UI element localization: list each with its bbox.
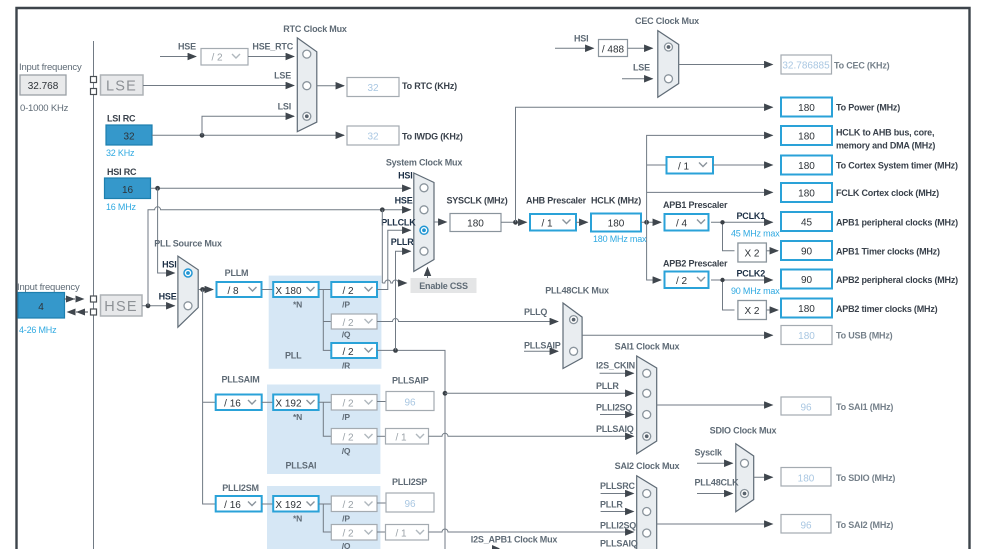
pin HSE bottom bbox=[91, 309, 97, 315]
svg-text:PLLSAIP: PLLSAIP bbox=[524, 341, 561, 351]
svg-text:/ 2: / 2 bbox=[342, 529, 354, 540]
chip boundary rail bbox=[93, 41, 95, 549]
output box APB2 peripheral bbox=[781, 270, 832, 289]
svg-text:90: 90 bbox=[801, 275, 813, 286]
wire HSE stub to /2 divider bbox=[160, 56, 196, 58]
wire APB1 to PCLK1 bbox=[711, 221, 773, 223]
wire APB1 to X2 bbox=[723, 222, 735, 251]
svg-text:PLLQ: PLLQ bbox=[524, 307, 547, 317]
svg-text:HSE_RTC: HSE_RTC bbox=[252, 42, 293, 52]
wire LSI to RTC mux and IWDG bbox=[152, 134, 344, 136]
svg-text:PLLCLK: PLLCLK bbox=[381, 218, 416, 228]
svg-text:45 MHz max: 45 MHz max bbox=[731, 229, 780, 239]
wire PLLSAIQ to SAI1 mux (hop over PLLR line) bbox=[429, 433, 634, 436]
wire /P to PLLSAIP box bbox=[377, 401, 386, 403]
svg-text:/ 2: / 2 bbox=[342, 500, 354, 511]
svg-text:HSI: HSI bbox=[574, 34, 588, 44]
wire PLLI2SQ to SAI2 mux (hop over PLLR line) bbox=[429, 529, 634, 532]
wire X2 to APB1 timer box bbox=[766, 250, 778, 252]
svg-text:/ 2: / 2 bbox=[342, 399, 354, 410]
svg-text:FCLK Cortex clock (MHz): FCLK Cortex clock (MHz) bbox=[836, 188, 939, 198]
svg-text:PLLSAIM: PLLSAIM bbox=[221, 375, 259, 385]
svg-text:PLLSAIP: PLLSAIP bbox=[392, 376, 429, 386]
svg-text:32: 32 bbox=[367, 83, 379, 94]
svg-text:To SAI1 (MHz): To SAI1 (MHz) bbox=[836, 402, 893, 412]
svg-text:PLL48CLK: PLL48CLK bbox=[695, 478, 740, 488]
wire /P to PLLI2SP box bbox=[377, 502, 386, 504]
svg-text:PLLM: PLLM bbox=[225, 268, 249, 278]
svg-text:180: 180 bbox=[798, 304, 815, 315]
svg-text:PLLR: PLLR bbox=[391, 237, 414, 247]
wire PLLM to PLLN bbox=[262, 289, 274, 291]
combobox AHB /1 bbox=[530, 214, 576, 231]
svg-text:/ 2: / 2 bbox=[342, 433, 354, 444]
svg-text:96: 96 bbox=[800, 403, 812, 414]
svg-text:APB2 peripheral clocks (MHz): APB2 peripheral clocks (MHz) bbox=[836, 275, 958, 285]
svg-text:HSI RC: HSI RC bbox=[107, 167, 137, 177]
mux SAI1 Clock Mux bbox=[637, 356, 657, 454]
combobox PLLI2S /1 (inactive) bbox=[386, 525, 429, 541]
wire APB2 to X2 bbox=[723, 280, 735, 310]
output box HCLK to AHB bbox=[781, 126, 832, 145]
svg-text:APB2 timer clocks (MHz): APB2 timer clocks (MHz) bbox=[836, 304, 938, 314]
svg-text:PLLSAI: PLLSAI bbox=[286, 461, 317, 471]
svg-text:PLLR: PLLR bbox=[600, 499, 623, 509]
svg-text:RTC Clock Mux: RTC Clock Mux bbox=[283, 24, 347, 34]
svg-text:32.768: 32.768 bbox=[28, 81, 59, 92]
svg-text:To SDIO (MHz): To SDIO (MHz) bbox=[836, 473, 895, 483]
box SYSCLK 180 bbox=[450, 214, 501, 232]
svg-text:/Q: /Q bbox=[342, 541, 351, 549]
svg-text:180 MHz max: 180 MHz max bbox=[593, 234, 647, 244]
wire /Q to /1 bbox=[377, 435, 386, 437]
svg-text:/ 8: / 8 bbox=[227, 286, 239, 297]
output box PLLSAIP 96 bbox=[386, 392, 434, 411]
svg-text:X 192: X 192 bbox=[275, 500, 302, 511]
wire HSI stub to /488 bbox=[555, 47, 594, 49]
wire CEC mux output bbox=[679, 64, 773, 66]
mux RTC Clock Mux bbox=[297, 38, 317, 132]
svg-text:HSE: HSE bbox=[159, 292, 177, 302]
wire AHB to HCLK bbox=[576, 221, 588, 223]
wire HSI RC to System mux HSI input bbox=[151, 187, 411, 189]
output box APB2 timer bbox=[781, 299, 832, 318]
wire /2 to RTC mux input 1 bbox=[248, 56, 294, 58]
svg-text:X 192: X 192 bbox=[275, 399, 302, 410]
svg-text:HSE: HSE bbox=[178, 42, 196, 52]
wire SYSCLK to AHB prescaler bbox=[501, 221, 527, 223]
combobox PLL /P bbox=[331, 282, 377, 297]
wire PLLI2SM to PLLI2SN bbox=[262, 503, 274, 505]
svg-text:To RTC (KHz): To RTC (KHz) bbox=[402, 81, 457, 91]
oscillator HSI RC box 16 bbox=[105, 178, 151, 199]
svg-text:CEC Clock Mux: CEC Clock Mux bbox=[635, 16, 699, 26]
wire LSE stub to CEC mux bbox=[622, 78, 653, 80]
panel PLLSAI bbox=[267, 385, 380, 475]
svg-text:memory and DMA (MHz): memory and DMA (MHz) bbox=[836, 141, 935, 151]
wire PLLR distribution down bbox=[444, 393, 446, 549]
svg-text:PLL: PLL bbox=[285, 351, 302, 361]
svg-text:/ 1: / 1 bbox=[541, 219, 553, 230]
wire HCLK to APB1 prescaler bbox=[641, 221, 661, 223]
svg-text:/ 1: / 1 bbox=[395, 529, 407, 540]
svg-text:HSE: HSE bbox=[104, 299, 137, 315]
svg-text:SAI1 Clock Mux: SAI1 Clock Mux bbox=[615, 342, 680, 352]
wire PLLI2SQ stub (SAI1) bbox=[600, 414, 634, 416]
wire X2 to APB2 timer box bbox=[766, 309, 778, 311]
wire SAI2 mux output bbox=[657, 523, 773, 525]
button Enable CSS bbox=[411, 278, 477, 293]
oscillator LSE bbox=[101, 75, 144, 95]
svg-text:PLLSAIQ: PLLSAIQ bbox=[600, 538, 638, 548]
output box APB1 timer bbox=[781, 241, 832, 260]
svg-text:To IWDG (KHz): To IWDG (KHz) bbox=[402, 132, 463, 142]
svg-text:/R: /R bbox=[342, 361, 350, 371]
output box To RTC bbox=[347, 78, 399, 97]
pin LSE bottom bbox=[91, 89, 97, 95]
svg-text:180: 180 bbox=[798, 474, 815, 485]
svg-text:Enable CSS: Enable CSS bbox=[419, 281, 468, 291]
output box APB1 peripheral bbox=[781, 212, 832, 231]
svg-text:LSI RC: LSI RC bbox=[107, 114, 136, 124]
wire Enable CSS from HSE (hops over risers) bbox=[382, 210, 406, 283]
svg-text:180: 180 bbox=[798, 132, 815, 143]
svg-text:SAI2 Clock Mux: SAI2 Clock Mux bbox=[615, 461, 680, 471]
svg-text:To Power (MHz): To Power (MHz) bbox=[836, 103, 900, 113]
svg-text:PLLI2SP: PLLI2SP bbox=[392, 477, 427, 487]
svg-text:To SAI2 (MHz): To SAI2 (MHz) bbox=[836, 520, 893, 530]
output box To Cortex System timer bbox=[781, 156, 832, 175]
svg-text:PLLSAIQ: PLLSAIQ bbox=[596, 424, 634, 434]
svg-text:/ 2: / 2 bbox=[342, 318, 354, 329]
wire PLLR to SAI1 mux bbox=[445, 392, 634, 394]
svg-text:LSI: LSI bbox=[278, 102, 291, 112]
svg-text:96: 96 bbox=[800, 521, 812, 532]
wire PLL48CLK stub bbox=[697, 493, 733, 495]
svg-text:System Clock Mux: System Clock Mux bbox=[386, 158, 463, 168]
svg-text:AHB Prescaler: AHB Prescaler bbox=[526, 196, 587, 206]
wire HCLK distribution riser bbox=[647, 135, 773, 222]
wire PLL48CLK mux output to USB bbox=[582, 334, 772, 336]
svg-text:SDIO Clock Mux: SDIO Clock Mux bbox=[710, 426, 777, 436]
oscillator LSI RC box 32 bbox=[106, 125, 152, 145]
svg-text:HSI: HSI bbox=[398, 171, 412, 181]
svg-text:X 180: X 180 bbox=[275, 286, 302, 297]
LSE input frequency box 32.768 bbox=[20, 75, 66, 95]
wire PLLSAIN to dividers bbox=[319, 402, 332, 436]
combobox PLLI2SM /16 bbox=[216, 496, 262, 512]
wire PLLCLK riser /P to System mux bbox=[377, 230, 411, 289]
svg-text:PCLK2: PCLK2 bbox=[737, 269, 766, 279]
svg-text:90 MHz max: 90 MHz max bbox=[731, 286, 780, 296]
svg-text:PLL Source Mux: PLL Source Mux bbox=[154, 239, 222, 249]
combobox PLL /R bbox=[331, 343, 377, 358]
wire SYSCLK riser to To Power bbox=[516, 107, 773, 222]
combobox PLLI2S /P (inactive) bbox=[331, 496, 377, 512]
svg-text:APB2 Prescaler: APB2 Prescaler bbox=[663, 259, 728, 269]
combobox PLLSAIM /16 bbox=[216, 395, 262, 411]
combobox PLLM /8 bbox=[217, 282, 262, 297]
combobox PLLI2SN X192 bbox=[273, 496, 318, 512]
svg-text:/P: /P bbox=[342, 300, 350, 310]
svg-text:PLLR: PLLR bbox=[596, 381, 619, 391]
output box To SAI1 bbox=[781, 397, 831, 415]
svg-text:PLLI2SQ: PLLI2SQ bbox=[596, 402, 632, 412]
svg-text:4: 4 bbox=[38, 302, 44, 313]
mux SDIO Clock Mux bbox=[736, 444, 754, 512]
combobox PLLSAIN X192 bbox=[273, 395, 318, 411]
box HCLK 180 bbox=[591, 214, 641, 232]
svg-text:/ 4: / 4 bbox=[676, 219, 688, 230]
panel PLLI2S bbox=[267, 486, 380, 549]
svg-text:/ 2: / 2 bbox=[211, 53, 223, 64]
combobox PLL /Q (inactive) bbox=[331, 314, 377, 329]
mux I2S_APB1 arrow stub bbox=[492, 545, 500, 549]
svg-text:Sysclk: Sysclk bbox=[695, 448, 724, 458]
svg-text:To USB (MHz): To USB (MHz) bbox=[836, 331, 893, 341]
svg-text:180: 180 bbox=[798, 331, 815, 342]
wire system mux output bbox=[434, 221, 447, 223]
combobox Cortex /1 bbox=[667, 157, 714, 174]
combobox PLLN X180 bbox=[273, 282, 318, 297]
combobox APB1 /4 bbox=[665, 214, 709, 231]
wire PLLSAIP stub bbox=[524, 350, 558, 352]
combobox RTC HSE /2 (inactive) bbox=[201, 49, 248, 66]
svg-text:/ 16: / 16 bbox=[224, 399, 241, 410]
svg-text:SYSCLK (MHz): SYSCLK (MHz) bbox=[446, 196, 507, 206]
oscillator HSE bbox=[101, 295, 143, 316]
svg-text:96: 96 bbox=[404, 398, 416, 409]
svg-text:/P: /P bbox=[342, 514, 350, 524]
svg-text:HSE: HSE bbox=[395, 196, 413, 206]
combobox APB2 /2 bbox=[665, 272, 709, 289]
wire RTC mux output bbox=[317, 85, 344, 87]
svg-text:4-26 MHz: 4-26 MHz bbox=[19, 325, 57, 335]
svg-text:0-1000 KHz: 0-1000 KHz bbox=[20, 103, 69, 114]
wire HSE riser to System mux HSE input (hop over HSI riser) bbox=[148, 207, 411, 306]
svg-text:180: 180 bbox=[798, 161, 815, 172]
wire PLLR riser /R to System mux bbox=[377, 350, 445, 393]
svg-text:To CEC (KHz): To CEC (KHz) bbox=[834, 61, 890, 71]
box X2 (APB1) bbox=[738, 243, 767, 262]
svg-text:/ 488: / 488 bbox=[602, 45, 625, 56]
svg-text:HCLK to AHB bus, core,: HCLK to AHB bus, core, bbox=[836, 128, 934, 138]
output box To CEC bbox=[781, 55, 832, 74]
svg-text:/Q: /Q bbox=[342, 446, 351, 456]
svg-text:X 2: X 2 bbox=[744, 306, 759, 317]
combobox PLLSAI /Q (inactive) bbox=[331, 429, 377, 445]
svg-text:32: 32 bbox=[367, 132, 379, 143]
wire APB2 to PCLK2 bbox=[711, 279, 773, 281]
output box FCLK Cortex clock bbox=[781, 183, 832, 202]
mux CEC Clock Mux bbox=[658, 31, 679, 98]
svg-text:X 2: X 2 bbox=[744, 249, 759, 260]
svg-text:16: 16 bbox=[122, 185, 134, 196]
svg-text:LSE: LSE bbox=[633, 63, 650, 73]
combobox PLLSAI /P (inactive) bbox=[331, 395, 377, 411]
svg-text:/P: /P bbox=[342, 412, 350, 422]
divider box /488 bbox=[599, 40, 628, 57]
box X2 (APB2) bbox=[738, 301, 767, 320]
double arrow left bbox=[67, 309, 86, 316]
svg-text:*N: *N bbox=[293, 412, 302, 422]
svg-text:PCLK1: PCLK1 bbox=[737, 211, 766, 221]
svg-text:180: 180 bbox=[798, 189, 815, 200]
wire SDIO mux output bbox=[754, 476, 773, 478]
svg-text:LSE: LSE bbox=[274, 71, 291, 81]
mux PLL Source Mux bbox=[178, 256, 198, 327]
combobox PLLI2S /Q (inactive) bbox=[331, 525, 377, 541]
svg-text:/ 2: / 2 bbox=[342, 286, 354, 297]
svg-text:/ 1: / 1 bbox=[678, 162, 690, 173]
svg-text:180: 180 bbox=[467, 219, 484, 230]
svg-text:HSI: HSI bbox=[162, 260, 176, 270]
svg-text:16 MHz: 16 MHz bbox=[106, 202, 137, 212]
wire I2S_CKIN stub bbox=[600, 372, 634, 374]
wire /488 to CEC mux bbox=[628, 47, 653, 49]
svg-text:90: 90 bbox=[801, 247, 813, 258]
combobox PLLSAI /1 (inactive) bbox=[386, 429, 429, 445]
wire Cortex /1 to box bbox=[713, 164, 773, 166]
mux SAI2 Clock Mux bbox=[637, 476, 657, 549]
svg-text:45: 45 bbox=[801, 218, 813, 229]
panel PLL bbox=[269, 276, 382, 369]
svg-text:/ 2: / 2 bbox=[342, 347, 354, 358]
output box To IWDG bbox=[347, 126, 399, 145]
output box To Power bbox=[781, 98, 832, 117]
svg-text:32 KHz: 32 KHz bbox=[106, 148, 135, 158]
svg-text:LSE: LSE bbox=[106, 79, 137, 95]
wire Sysclk stub bbox=[697, 462, 733, 464]
pin LSE top bbox=[91, 77, 97, 83]
wire HSI riser to PLL source mux bbox=[158, 188, 175, 273]
svg-text:PLLI2SQ: PLLI2SQ bbox=[600, 520, 636, 530]
wire PLL mux output to PLLM bbox=[198, 289, 213, 291]
svg-text:HCLK (MHz): HCLK (MHz) bbox=[591, 196, 641, 206]
double arrow right bbox=[66, 296, 85, 303]
svg-text:PLLSRC: PLLSRC bbox=[600, 481, 636, 491]
svg-text:Input frequency: Input frequency bbox=[19, 62, 82, 73]
svg-text:I2S_CKIN: I2S_CKIN bbox=[596, 361, 635, 371]
wire PLLSRC stub bbox=[601, 493, 634, 495]
svg-text:I2S_APB1 Clock Mux: I2S_APB1 Clock Mux bbox=[471, 535, 558, 545]
wire PLLSAIM to PLLSAIN bbox=[262, 401, 274, 403]
svg-text:APB1 Timer clocks (MHz): APB1 Timer clocks (MHz) bbox=[836, 247, 940, 257]
mux System Clock Mux bbox=[414, 173, 434, 271]
svg-text:To Cortex System timer (MHz): To Cortex System timer (MHz) bbox=[836, 161, 958, 171]
output box To SAI2 bbox=[781, 515, 831, 534]
svg-text:180: 180 bbox=[798, 103, 815, 114]
wire HSE to PLL source mux bbox=[142, 305, 175, 307]
svg-text:32.786885: 32.786885 bbox=[782, 61, 830, 72]
mux PLL48CLK bbox=[563, 303, 582, 369]
wire PLLR stub (SAI2) bbox=[601, 511, 634, 513]
svg-text:*N: *N bbox=[293, 300, 302, 310]
output box To SDIO bbox=[781, 468, 831, 487]
wire LSE to RTC mux input 2 bbox=[143, 85, 294, 87]
svg-text:/ 1: / 1 bbox=[395, 433, 407, 444]
svg-text:Input frequency: Input frequency bbox=[17, 282, 80, 293]
wire PLLN to dividers bbox=[319, 290, 332, 351]
wire SAI1 mux output bbox=[657, 404, 773, 406]
pin HSE top bbox=[91, 296, 97, 302]
wire PLLI2SN to dividers bbox=[319, 504, 332, 532]
output box PLLI2SP 96 bbox=[386, 493, 434, 512]
wire Enable CSS up arrow bbox=[427, 268, 429, 279]
svg-text:*N: *N bbox=[293, 514, 302, 524]
wire PLLQ to PLL48CLK mux (hop over PLLR riser) bbox=[377, 319, 558, 322]
svg-text:APB1 peripheral clocks (MHz): APB1 peripheral clocks (MHz) bbox=[836, 218, 958, 228]
wire /Q to /1 (PLLI2S) bbox=[377, 531, 386, 533]
svg-text:96: 96 bbox=[404, 499, 416, 510]
output box To USB bbox=[781, 326, 832, 345]
svg-text:PLLI2SM: PLLI2SM bbox=[222, 483, 259, 493]
svg-text:32: 32 bbox=[123, 132, 135, 143]
svg-text:/ 2: / 2 bbox=[676, 276, 688, 287]
svg-text:APB1 Prescaler: APB1 Prescaler bbox=[663, 200, 728, 210]
HSE input frequency box 4 bbox=[18, 293, 65, 319]
svg-text:/Q: /Q bbox=[342, 330, 351, 340]
svg-text:180: 180 bbox=[608, 219, 625, 230]
wire riser to PLLSAIM and PLLI2SM bbox=[203, 290, 216, 505]
svg-text:/ 16: / 16 bbox=[224, 500, 241, 511]
svg-text:PLL48CLK Mux: PLL48CLK Mux bbox=[545, 286, 609, 296]
